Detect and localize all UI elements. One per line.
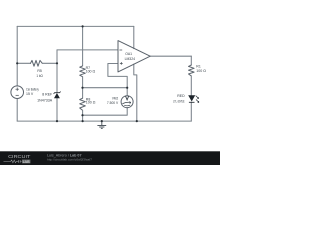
LED D1 (188, 95, 199, 103)
resistor R1 zigzag (189, 65, 195, 76)
resistor R5 zigzag (31, 60, 43, 66)
op-amp minus sign (119, 49, 122, 51)
LED triangle (188, 95, 195, 101)
junction node rail / zener (56, 120, 58, 122)
op-amp OA1 (118, 41, 150, 72)
wire non-inverting input hook (108, 64, 127, 88)
junction node divider midpoint (81, 87, 83, 89)
svg-text:http://circuitlab.com/c6af2f3f: http://circuitlab.com/c6af2f3faaf7 (47, 158, 93, 162)
svg-text:100 Ω: 100 Ω (86, 101, 96, 105)
wire R5 left lead (17, 62, 30, 64)
zener triangle (54, 93, 60, 98)
svg-text:RED: RED (177, 94, 185, 98)
wire battery branch lower (16, 99, 18, 122)
svg-text:VM2: VM2 (112, 97, 118, 101)
LED cathode bar (189, 101, 195, 103)
svg-text:100 Ω: 100 Ω (86, 69, 96, 73)
svg-text:LM324: LM324 (125, 57, 135, 61)
svg-text:LAB: LAB (23, 160, 30, 164)
battery V source (11, 86, 24, 99)
voltmeter needle (122, 102, 130, 103)
resistor R8 zigzag (80, 98, 86, 110)
wire R1 top lead (190, 56, 192, 65)
battery minus (16, 94, 19, 96)
junction node rail / divider (82, 120, 84, 122)
junction node rail / ground (101, 120, 103, 122)
wire op-amp V+ supply drop (133, 26, 135, 48)
wire voltmeter bottom lead (83, 108, 128, 116)
wire R1 to LED (190, 76, 192, 96)
svg-text:7.500 V: 7.500 V (107, 101, 119, 105)
svg-text:LTL-307EE: LTL-307EE (173, 100, 185, 104)
zener cathode bar with hooks (54, 92, 61, 94)
junction node top rail / divider (82, 25, 84, 27)
footer bar (0, 151, 220, 165)
svg-text:1N4733A: 1N4733A (37, 98, 53, 102)
wire divider midpoint to voltmeter (83, 87, 128, 89)
svg-text:R5: R5 (37, 69, 42, 73)
wire op-amp V- supply (134, 64, 137, 121)
svg-text:1 kΩ: 1 kΩ (36, 74, 43, 78)
resistor R7 zigzag (80, 66, 86, 77)
svg-text:100 Ω: 100 Ω (196, 69, 206, 73)
wire R5 right lead to zener node (42, 62, 57, 64)
voltmeter VM2 (121, 96, 133, 108)
svg-text:Car Battery: Car Battery (26, 88, 39, 92)
wire inverting input from zener node (57, 49, 118, 51)
wire divider top from rail (82, 26, 84, 66)
footer logo LAB chip (22, 160, 30, 164)
wire zener top lead (56, 50, 58, 93)
junction node zener / R5 (56, 62, 58, 64)
svg-text:Luis_Abrero / Lab 07: Luis_Abrero / Lab 07 (47, 153, 82, 157)
wire between R7 and R8 (82, 77, 84, 99)
LED light arrows (196, 100, 199, 103)
wire battery branch upper (16, 26, 18, 86)
op-amp plus sign (120, 62, 123, 65)
svg-text:OA1: OA1 (125, 52, 132, 56)
voltmeter V glyph (126, 96, 129, 100)
junction node R8 bottom / VM return (81, 114, 83, 116)
junction node voltmeter top (126, 87, 128, 89)
zener diode D REF (54, 92, 61, 99)
wire op-amp output (150, 55, 191, 57)
wire voltmeter top lead (126, 88, 128, 96)
ground (97, 121, 106, 128)
wire LED cathode to rail (190, 102, 192, 121)
wire R8 bottom to ground rail (82, 110, 84, 121)
battery plus (16, 88, 19, 91)
junction node battery/R5 (16, 62, 18, 64)
svg-text:8 REF: 8 REF (42, 93, 52, 97)
wire ground rail bottom (17, 120, 191, 122)
voltmeter lower arc (124, 104, 130, 107)
junction node rail / V- supply (136, 120, 138, 122)
svg-text:15 V: 15 V (26, 92, 34, 96)
wire top rail from battery to op-amp V+ (17, 25, 134, 27)
footer logo zigzag and capacitor (4, 160, 22, 163)
wire zener bottom lead (56, 98, 58, 121)
